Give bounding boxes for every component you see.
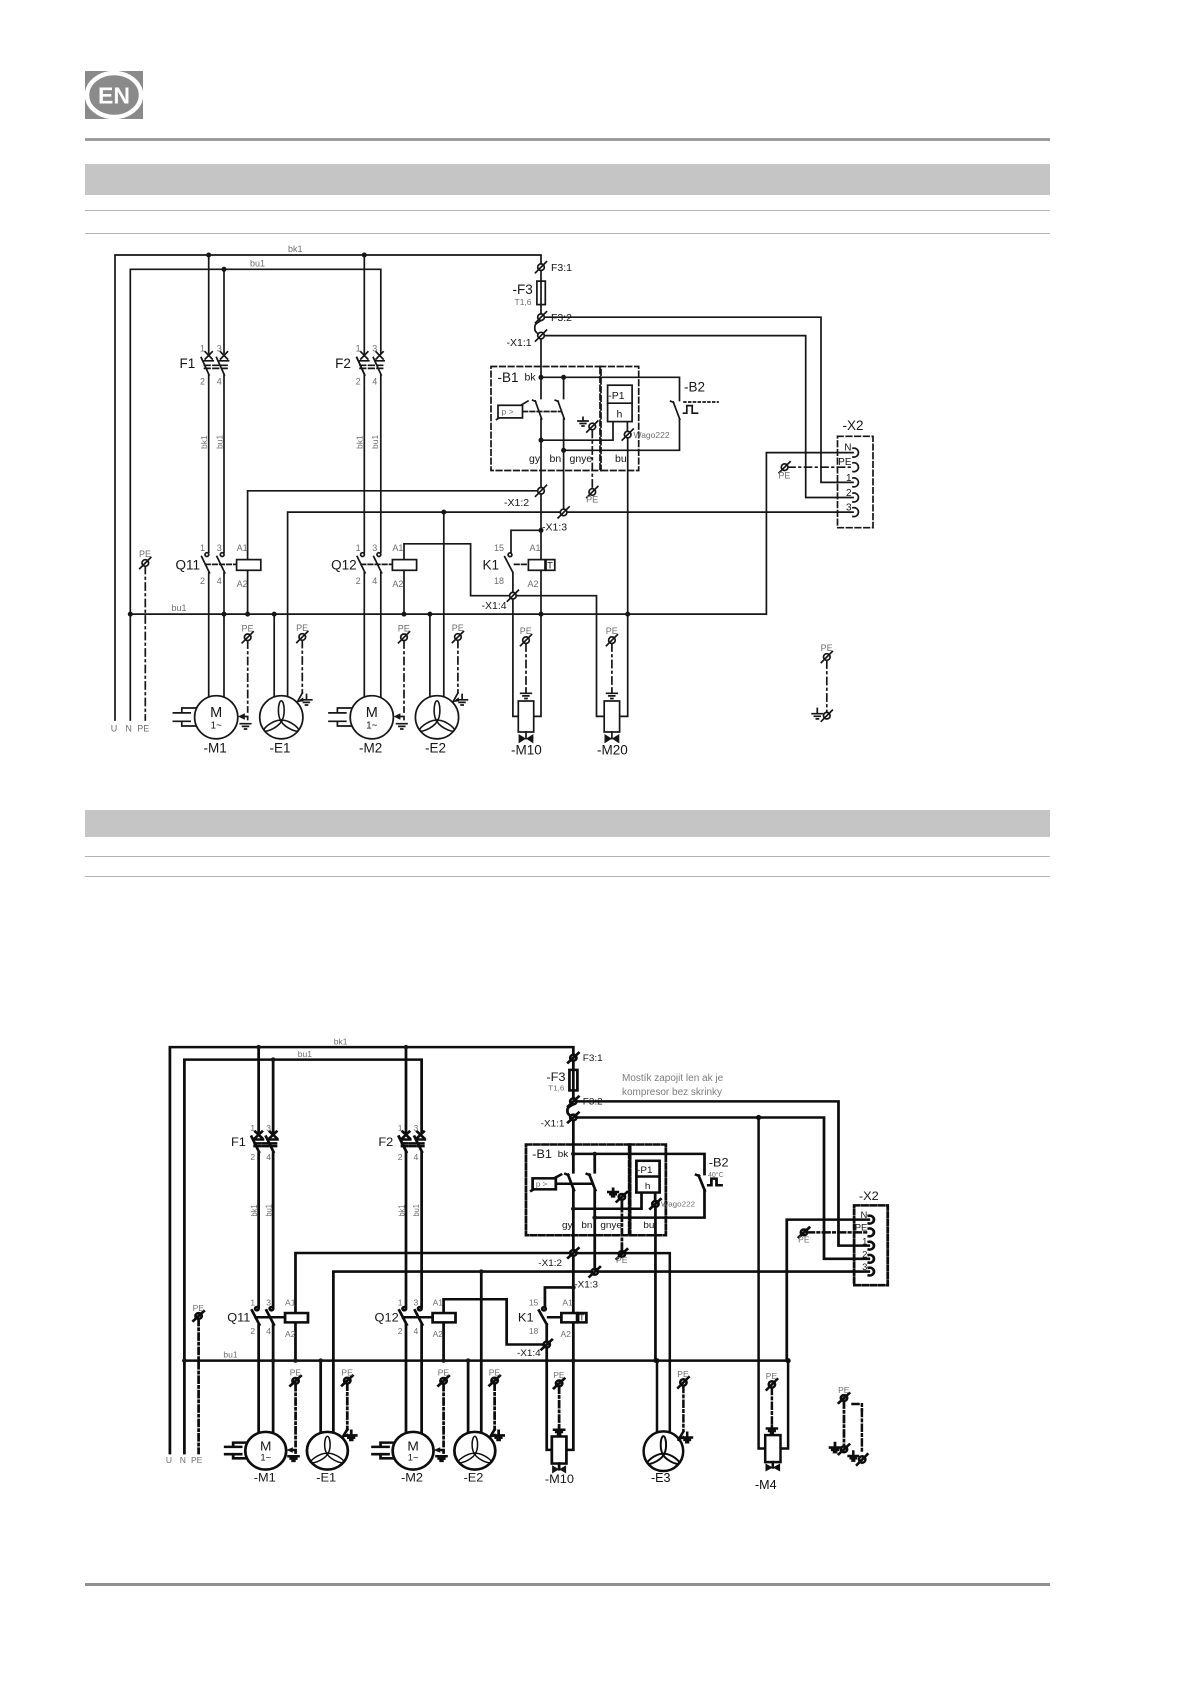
junction M4 on bu1 <box>786 1358 791 1363</box>
wire X1:4 to M20 left leg <box>516 596 604 717</box>
svg-text:kompresor bez skrinky: kompresor bez skrinky <box>622 1087 722 1098</box>
svg-text:PE: PE <box>677 1369 689 1379</box>
thin rule <box>85 210 1050 212</box>
svg-text:PE: PE <box>766 1371 778 1381</box>
wire M4 right leg from bu1 <box>781 1361 789 1449</box>
junction E3 on bu1 <box>654 1358 659 1363</box>
solenoid valve M20 body <box>604 701 619 732</box>
ground above M20 <box>607 691 618 699</box>
fan E3 <box>644 1431 684 1471</box>
second right PE chain <box>853 1404 862 1410</box>
svg-text:Mostík zapojit len ak je: Mostík zapojit len ak je <box>622 1073 724 1084</box>
wire M20 right leg from bu1 <box>620 614 628 716</box>
wiring diagram 1 <box>111 244 873 758</box>
footer rule <box>85 1583 1050 1586</box>
wire X1:2 extension to E3 riser <box>577 1253 670 1431</box>
wire E3 left leg <box>656 1361 659 1433</box>
wiring diagram 2 <box>166 1038 888 1486</box>
svg-text:-E3: -E3 <box>651 1471 671 1485</box>
terminal PE E3 <box>678 1377 689 1388</box>
terminal PE M4 <box>767 1379 778 1390</box>
svg-text:PE: PE <box>606 626 618 636</box>
thin rule <box>85 233 1050 235</box>
section title bar 2 <box>85 810 1050 837</box>
svg-text:-M20: -M20 <box>597 743 628 758</box>
section title bar 1 <box>85 164 1050 195</box>
dash-dot PE drop E3 <box>682 1386 685 1431</box>
thin rule <box>85 856 1050 858</box>
header rule <box>85 138 1050 142</box>
diagram 2 extra elements <box>577 1073 868 1492</box>
B2 dotted tail <box>684 401 718 403</box>
svg-text:40°C: 40°C <box>708 1171 724 1179</box>
solenoid valve M4 body <box>765 1435 780 1462</box>
ground above M4 <box>767 1426 777 1434</box>
svg-text:-M4: -M4 <box>755 1478 777 1492</box>
terminal PE M20 <box>606 635 617 646</box>
wire M4 left leg from X1:1 junction <box>759 1118 766 1449</box>
junction on X1:1 feed <box>756 1115 761 1120</box>
PE arrow into E3 + ground <box>679 1435 685 1439</box>
EN language logo <box>85 71 143 119</box>
thin rule <box>85 876 1050 878</box>
dash-dot PE drop M4 <box>771 1388 774 1426</box>
dash-dot PE drop M20 <box>611 644 613 691</box>
